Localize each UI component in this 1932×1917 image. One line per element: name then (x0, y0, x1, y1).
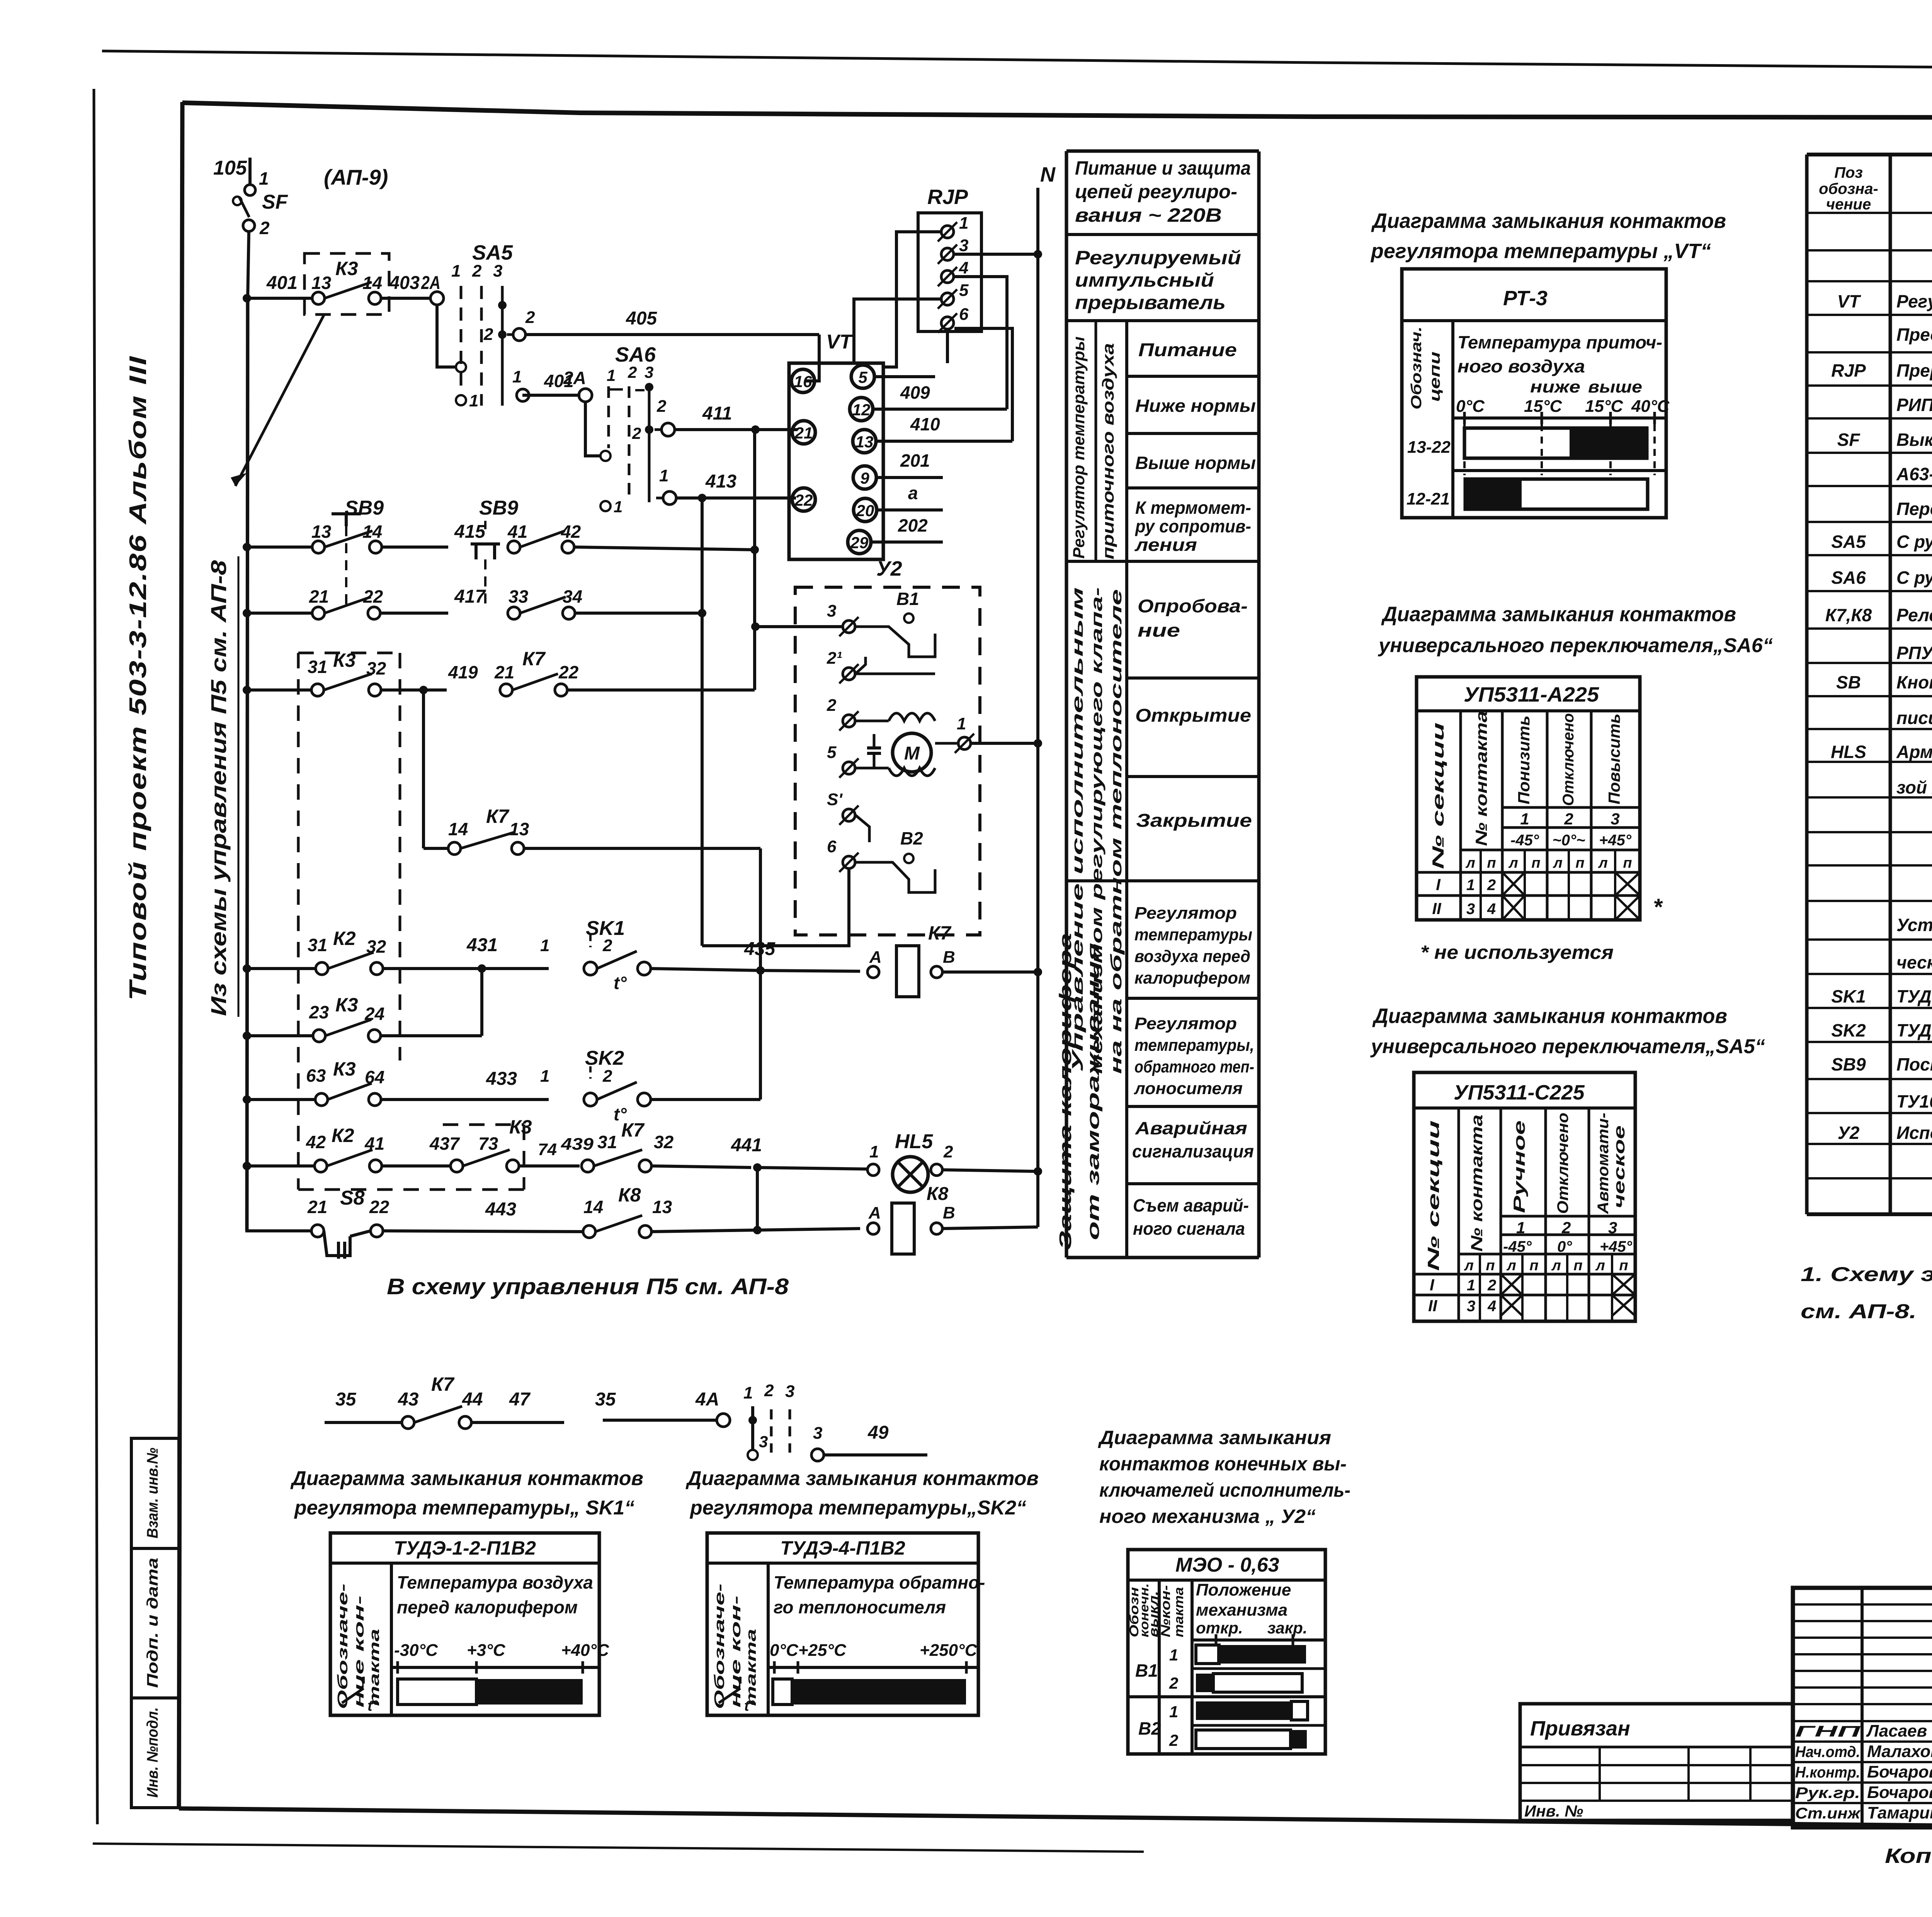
svg-text:2: 2 (628, 363, 637, 381)
svg-text:л: л (1506, 1258, 1516, 1274)
svg-text:VT: VT (1837, 291, 1862, 311)
svg-text:2: 2 (1169, 1674, 1178, 1692)
svg-text:В2: В2 (900, 828, 923, 848)
svg-text:К7,К8: К7,К8 (1825, 605, 1872, 625)
svg-text:РПУ-2-06220УЗА, 2з+2р ~220В, 5: РПУ-2-06220УЗА, 2з+2р ~220В, 50Гц, ТУ16-… (1896, 643, 1932, 663)
svg-text:4: 4 (959, 258, 968, 277)
svg-text:В схему управления П5 см.: В схему управления П5 см. АП-8 (387, 1274, 789, 1299)
svg-text:Диаграмма замыкания контактов: Диаграмма замыкания контактов (1371, 209, 1726, 233)
svg-text:31: 31 (597, 1132, 617, 1152)
svg-text:42: 42 (306, 1132, 326, 1152)
svg-text:Повысить: Повысить (1605, 714, 1623, 804)
svg-text:А63-МУ3~220В, Iн=1,0А. Iотс=1,: А63-МУ3~220В, Iн=1,0А. Iотс=1,3Iн,ТУ16-5… (1896, 464, 1932, 484)
svg-text:такта: такта (1172, 1587, 1186, 1637)
svg-text:+250°С: +250°С (920, 1641, 978, 1660)
svg-text:20: 20 (856, 501, 874, 520)
svg-text:Регулируемый: Регулируемый (1075, 247, 1241, 269)
svg-text:73: 73 (478, 1134, 498, 1154)
svg-text:Поз: Поз (1834, 164, 1863, 181)
svg-text:Закрытие: Закрытие (1136, 811, 1252, 831)
svg-text:35: 35 (335, 1389, 357, 1410)
svg-text:-45°: -45° (1503, 1238, 1532, 1255)
svg-text:К3: К3 (335, 258, 358, 279)
svg-text:п: п (1529, 1258, 1538, 1274)
svg-text:Пост управления кнопочный ПК: Пост управления кнопочный ПКЕ 212-2УЗ (1896, 1054, 1932, 1074)
svg-text:зой АС120 11У2, ~ 220В, ТУ16-5: зой АС120 11У2, ~ 220В, ТУ16-535. 930 -7… (1896, 777, 1932, 797)
svg-text:Из схемы управления П5 см.: Из схемы управления П5 см. АП-8 (206, 560, 231, 1016)
svg-text:33: 33 (509, 586, 529, 607)
svg-text:0°С+25°С: 0°С+25°С (770, 1641, 847, 1660)
svg-text:У2: У2 (876, 557, 902, 580)
svg-text:ческое, ТУ25-02.281. 074-78: ческое, ТУ25-02.281. 074-78 (1896, 952, 1932, 972)
svg-text:II: II (1428, 1297, 1438, 1315)
svg-text:выше: выше (1588, 377, 1642, 396)
svg-text:Привязан: Привязан (1530, 1717, 1630, 1740)
svg-text:3: 3 (813, 1424, 822, 1443)
svg-text:2¹: 2¹ (827, 649, 842, 668)
svg-text:2: 2 (472, 262, 482, 280)
svg-text:-30°С: -30°С (394, 1641, 438, 1660)
svg-text:ления: ления (1134, 535, 1197, 555)
svg-text:л: л (1464, 1258, 1474, 1274)
svg-text:417: 417 (454, 586, 486, 607)
svg-text:приточного воздуха: приточного воздуха (1099, 343, 1117, 559)
svg-text:S': S' (827, 790, 843, 809)
svg-text:41: 41 (507, 522, 527, 542)
svg-text:ного воздуха: ного воздуха (1458, 356, 1585, 376)
svg-text:I: I (1436, 875, 1441, 894)
svg-text:Инв. №: Инв. № (1524, 1802, 1583, 1820)
svg-text:5: 5 (827, 743, 837, 762)
svg-text:РТ-3: РТ-3 (1503, 287, 1548, 310)
svg-text:SK1: SK1 (1831, 986, 1866, 1006)
svg-text:Диаграмма замыкания: Диаграмма замыкания (1098, 1427, 1331, 1448)
svg-text:RJP: RJP (927, 185, 968, 209)
svg-text:Н.контр.: Н.контр. (1795, 1764, 1860, 1781)
svg-text:1: 1 (1520, 810, 1529, 828)
svg-text:В: В (943, 1203, 955, 1222)
svg-text:SF: SF (1837, 430, 1861, 450)
svg-text:К7: К7 (522, 648, 546, 670)
svg-text:Рук.гр.: Рук.гр. (1795, 1784, 1860, 1801)
svg-text:А: А (868, 1203, 881, 1222)
svg-text:13: 13 (311, 522, 332, 542)
svg-text:VT: VT (826, 331, 854, 353)
svg-text:К2: К2 (333, 928, 356, 949)
svg-text:Малахов: Малахов (1867, 1742, 1932, 1761)
svg-text:Инв. №подл.: Инв. №подл. (144, 1707, 161, 1798)
svg-text:21: 21 (309, 586, 329, 607)
svg-text:405: 405 (626, 308, 657, 329)
svg-text:441: 441 (731, 1135, 762, 1156)
svg-text:цепей регулиро-: цепей регулиро- (1075, 181, 1237, 202)
svg-text:цепи: цепи (1427, 352, 1443, 402)
svg-text:РИП-2УХЛ4-220В, 50Гц. ТУ36-174: РИП-2УХЛ4-220В, 50Гц. ТУ36-1748-74 (1896, 395, 1932, 415)
svg-text:Типовой проект 503-3-12.86: Типовой проект 503-3-12.86 Альбом III (125, 355, 151, 1001)
svg-text:437: 437 (429, 1134, 460, 1154)
svg-text:Выключатель автоматический одн: Выключатель автоматический однополюсный (1896, 430, 1932, 450)
svg-text:21: 21 (794, 424, 813, 442)
svg-text:419: 419 (448, 662, 478, 682)
svg-text:№ контакта: № контакта (1468, 1115, 1486, 1252)
svg-text:HL5: HL5 (895, 1130, 933, 1153)
svg-text:ТУ16 - 526 . 216 -78: ТУ16 - 526 . 216 -78 (1896, 1091, 1932, 1111)
svg-text:15°С: 15°С (1524, 397, 1563, 416)
svg-text:31: 31 (308, 657, 327, 677)
svg-text:№кон-: №кон- (1158, 1585, 1173, 1637)
svg-text:409: 409 (900, 382, 930, 403)
svg-text:Температура обратно-: Температура обратно- (774, 1572, 985, 1592)
svg-text:п: п (1575, 855, 1584, 871)
svg-text:л: л (1553, 855, 1563, 871)
svg-text:см. АП-8.: см. АП-8. (1801, 1300, 1917, 1323)
svg-text:ниже: ниже (1530, 377, 1580, 396)
svg-text:SB9: SB9 (479, 497, 518, 519)
svg-text:32: 32 (654, 1132, 674, 1152)
svg-text:+3°С: +3°С (467, 1641, 506, 1660)
svg-text:0°С: 0°С (1456, 397, 1485, 416)
svg-text:К7: К7 (486, 806, 510, 827)
svg-text:ние: ние (1138, 620, 1180, 641)
svg-text:п: п (1486, 1258, 1495, 1274)
svg-text:2: 2 (525, 308, 535, 327)
svg-text:ТУДЭ -1- 2 - П1В2: ТУДЭ -1- 2 - П1В2 (1896, 986, 1932, 1006)
svg-text:13: 13 (652, 1197, 672, 1217)
svg-text:6: 6 (827, 837, 837, 856)
svg-text:2: 2 (764, 1381, 774, 1400)
svg-text:435: 435 (744, 939, 776, 959)
svg-text:2: 2 (656, 397, 667, 416)
svg-text:I: I (1430, 1276, 1435, 1294)
svg-text:1. Схему электрическую принц: 1. Схему электрическую принципиальную уп… (1801, 1263, 1932, 1286)
svg-text:К2: К2 (332, 1125, 354, 1146)
svg-text:Регулятор температуры: Регулятор температуры (1070, 336, 1088, 559)
svg-text:21: 21 (494, 662, 514, 682)
svg-text:Питание: Питание (1138, 340, 1237, 360)
svg-text:Открытие: Открытие (1135, 705, 1251, 726)
svg-text:Регулятор: Регулятор (1134, 904, 1237, 923)
svg-text:29: 29 (850, 534, 869, 552)
svg-text:К термомет-: К термомет- (1135, 498, 1251, 518)
svg-text:4А: 4А (695, 1389, 719, 1410)
svg-text:2: 2 (632, 424, 641, 442)
svg-text:импульсный: импульсный (1075, 269, 1214, 291)
svg-text:4: 4 (1487, 901, 1496, 918)
svg-text:Бочарова: Бочарова (1867, 1762, 1932, 1781)
svg-text:Бочарова: Бочарова (1867, 1783, 1932, 1802)
svg-text:Автомати-: Автомати- (1595, 1113, 1612, 1214)
svg-text:Опробова-: Опробова- (1138, 596, 1248, 617)
svg-text:К7: К7 (928, 922, 952, 944)
svg-text:47: 47 (509, 1389, 531, 1410)
svg-text:1: 1 (469, 391, 478, 410)
svg-text:S8: S8 (340, 1187, 365, 1209)
svg-text:регулятора температуры„ SK1“: регулятора температуры„ SK1“ (294, 1497, 634, 1519)
svg-text:калорифером: калорифером (1134, 969, 1250, 987)
svg-text:12-21: 12-21 (1406, 489, 1450, 508)
svg-text:Предел регулирования 0-40°С,ТУ: Предел регулирования 0-40°С,ТУ25-02.202.… (1896, 325, 1932, 345)
svg-text:SB: SB (1836, 672, 1861, 692)
svg-text:3: 3 (759, 1433, 768, 1451)
svg-text:t°: t° (367, 1698, 379, 1714)
svg-text:1: 1 (512, 367, 522, 386)
svg-text:Реле электромагнитное универс: Реле электромагнитное универсальное (1896, 605, 1932, 625)
svg-text:регулятора температуры„SK2“: регулятора температуры„SK2“ (689, 1497, 1026, 1519)
svg-text:14: 14 (583, 1197, 603, 1217)
svg-text:Диаграмма замыкания контактов: Диаграмма замыкания контактов (1372, 1004, 1727, 1028)
svg-text:14: 14 (448, 819, 468, 839)
svg-text:3: 3 (1611, 810, 1619, 828)
svg-text:22: 22 (558, 662, 579, 682)
svg-text:У2: У2 (1838, 1123, 1860, 1143)
svg-text:401: 401 (266, 273, 298, 293)
svg-text:3: 3 (493, 262, 502, 280)
svg-text:п: п (1531, 855, 1540, 871)
svg-text:2: 2 (943, 1142, 953, 1161)
svg-text:чение: чение (1826, 196, 1871, 213)
svg-text:1: 1 (451, 262, 461, 280)
svg-text:1: 1 (1467, 1277, 1475, 1294)
svg-text:Копировал Шос. -: Копировал Шос. - (1885, 1844, 1932, 1868)
svg-text:универсального переключателя„S: универсального переключателя„SA6“ (1378, 634, 1773, 657)
svg-text:12: 12 (852, 401, 871, 419)
svg-text:2: 2 (602, 936, 612, 955)
svg-text:1: 1 (743, 1383, 753, 1402)
svg-text:такта: такта (366, 1629, 382, 1706)
svg-text:21: 21 (307, 1197, 327, 1217)
svg-text:Диаграмма замыкания контактов: Диаграмма замыкания контактов (290, 1467, 643, 1490)
svg-text:В: В (943, 948, 955, 967)
svg-text:*: * (1653, 894, 1663, 920)
svg-text:температуры,: температуры, (1134, 1036, 1254, 1055)
svg-text:403: 403 (389, 273, 420, 293)
svg-text:Арматура светосигнальная с кр: Арматура светосигнальная с красной лин- (1896, 742, 1932, 762)
svg-text:Ст.инж: Ст.инж (1795, 1805, 1861, 1822)
svg-text:63: 63 (306, 1066, 326, 1086)
svg-text:закр.: закр. (1267, 1619, 1307, 1637)
svg-text:л: л (1551, 1258, 1561, 1274)
svg-text:2А: 2А (421, 273, 440, 293)
svg-text:такта: такта (743, 1629, 759, 1706)
svg-text:13-22: 13-22 (1407, 438, 1451, 457)
svg-text:1: 1 (1169, 1646, 1178, 1664)
svg-text:Обознач.: Обознач. (1408, 326, 1425, 410)
svg-text:2: 2 (483, 325, 493, 344)
svg-text:2: 2 (602, 1067, 612, 1086)
svg-text:п: п (1487, 855, 1496, 871)
svg-text:1: 1 (259, 168, 269, 189)
svg-text:t°: t° (614, 973, 627, 993)
svg-text:Ниже нормы: Ниже нормы (1135, 396, 1256, 416)
svg-text:писи, ТУ 16-526. 407- 79: писи, ТУ 16-526. 407- 79 (1896, 708, 1932, 728)
svg-text:ного сигнала: ного сигнала (1133, 1219, 1245, 1239)
svg-text:л: л (1595, 1258, 1605, 1274)
svg-text:ключателей исполнитель-: ключателей исполнитель- (1099, 1479, 1350, 1501)
svg-text:II: II (1432, 899, 1442, 918)
svg-text:Понизить: Понизить (1515, 715, 1533, 804)
svg-text:Питание и защита: Питание и защита (1075, 157, 1251, 179)
svg-text:13: 13 (855, 433, 874, 451)
svg-text:лоносителя: лоносителя (1134, 1079, 1243, 1098)
svg-text:п: п (1623, 855, 1632, 871)
svg-text:В1: В1 (1135, 1660, 1158, 1681)
svg-text:SK2: SK2 (585, 1047, 624, 1069)
svg-text:* не используется: * не используется (1420, 942, 1614, 963)
svg-text:Диаграмма замыкания контактов: Диаграмма замыкания контактов (1381, 603, 1736, 626)
svg-text:2: 2 (259, 218, 270, 238)
svg-text:23: 23 (309, 1002, 329, 1022)
svg-text:механизма: механизма (1196, 1601, 1287, 1620)
svg-text:SA6: SA6 (1831, 568, 1866, 588)
svg-text:воздуха перед: воздуха перед (1134, 947, 1250, 966)
svg-text:Тамарина: Тамарина (1867, 1803, 1932, 1822)
svg-text:обратного теп-: обратного теп- (1134, 1057, 1254, 1076)
svg-text:22: 22 (369, 1197, 389, 1217)
svg-text:1: 1 (540, 1067, 549, 1086)
svg-text:М: М (904, 743, 920, 764)
svg-text:415: 415 (454, 522, 486, 542)
svg-text:1: 1 (957, 714, 966, 733)
svg-text:п: п (1619, 1258, 1628, 1274)
svg-text:К8: К8 (927, 1184, 949, 1204)
svg-text:3: 3 (1467, 1298, 1475, 1315)
svg-text:Обозначе-: Обозначе- (335, 1584, 350, 1709)
svg-text:вания ~ 220В: вания ~ 220В (1075, 204, 1222, 226)
svg-text:410: 410 (910, 414, 940, 434)
svg-text:2: 2 (1487, 1277, 1496, 1294)
svg-text:Положение: Положение (1196, 1581, 1291, 1599)
svg-text:УП5311-А225: УП5311-А225 (1464, 683, 1599, 706)
svg-text:SA5: SA5 (472, 241, 513, 264)
svg-text:1: 1 (614, 498, 622, 516)
svg-text:Регулятор температуры РТ-3, Гр: Регулятор температуры РТ-3, Градуировка … (1896, 291, 1932, 311)
svg-text:ческое: ческое (1611, 1125, 1628, 1208)
svg-text:1: 1 (959, 214, 968, 233)
svg-text:40°С: 40°С (1631, 397, 1670, 416)
svg-text:Отключено: Отключено (1554, 1113, 1571, 1214)
svg-text:-45°: -45° (1510, 832, 1539, 849)
svg-text:13: 13 (311, 273, 332, 293)
svg-text:31: 31 (308, 935, 327, 955)
svg-text:температуры: температуры (1134, 925, 1252, 944)
svg-text:Обозначе-: Обозначе- (711, 1584, 727, 1709)
svg-text:431: 431 (466, 935, 498, 955)
svg-text:Устройство терморегулирующее: Устройство терморегулирующее дилатометри… (1896, 915, 1932, 935)
svg-text:сигнализация: сигнализация (1132, 1141, 1254, 1161)
svg-text:N: N (1040, 163, 1056, 186)
svg-text:34: 34 (563, 586, 582, 607)
svg-text:ТУДЭ - 4 -П1В2: ТУДЭ - 4 -П1В2 (1896, 1020, 1932, 1040)
svg-text:Аварийная: Аварийная (1135, 1118, 1247, 1138)
svg-text:К8: К8 (618, 1184, 641, 1206)
svg-text:202: 202 (898, 515, 928, 535)
svg-text:регулятора температуры „VT“: регулятора температуры „VT“ (1370, 240, 1711, 263)
svg-text:2: 2 (1564, 810, 1573, 828)
svg-text:А: А (869, 948, 882, 967)
svg-text:МЭО - 0,63: МЭО - 0,63 (1175, 1554, 1279, 1576)
svg-text:Прерыватель регулируемый импу: Прерыватель регулируемый импульсный (1896, 360, 1932, 381)
svg-text:+45°: +45° (1600, 1238, 1633, 1255)
svg-text:2: 2 (827, 696, 837, 715)
svg-text:ТУДЭ-1-2-П1В2: ТУДЭ-1-2-П1В2 (394, 1537, 536, 1559)
svg-text:+40°С: +40°С (561, 1641, 609, 1660)
svg-text:SB9: SB9 (345, 497, 384, 519)
svg-text:(АП-9): (АП-9) (324, 165, 388, 189)
svg-text:+45°: +45° (1599, 832, 1632, 849)
svg-text:22: 22 (363, 586, 383, 607)
svg-text:на на обратном теплоносителе: на на обратном теплоносителе (1108, 589, 1125, 1074)
svg-text:44: 44 (462, 1389, 483, 1410)
svg-text:Переключатель универсальный,ТУ: Переключатель универсальный,ТУ16-524.074… (1896, 499, 1932, 519)
svg-text:го теплоносителя: го теплоносителя (774, 1597, 946, 1617)
svg-text:Отключено: Отключено (1560, 713, 1577, 806)
svg-text:SВ9: SВ9 (1831, 1054, 1866, 1074)
svg-text:t°: t° (744, 1698, 755, 1714)
svg-text:43: 43 (398, 1389, 419, 1410)
svg-text:SF: SF (262, 191, 288, 213)
svg-text:13: 13 (509, 819, 529, 839)
svg-text:С рукояткой овальной формы УП: С рукояткой овальной формы УП5311- С225 (1896, 532, 1932, 552)
svg-text:49: 49 (867, 1422, 889, 1443)
svg-text:443: 443 (485, 1199, 516, 1220)
svg-text:№ контакта: № контакта (1472, 711, 1490, 846)
svg-text:Регулятор: Регулятор (1134, 1014, 1237, 1033)
svg-text:Защита калорифера: Защита калорифера (1056, 933, 1075, 1250)
svg-text:HLS: HLS (1831, 742, 1866, 762)
svg-text:Диаграмма замыкания контактов: Диаграмма замыкания контактов (685, 1467, 1039, 1490)
svg-text:Выше нормы: Выше нормы (1135, 453, 1256, 473)
svg-text:SA5: SA5 (1831, 532, 1866, 552)
svg-text:201: 201 (900, 450, 930, 471)
svg-text:SA6: SA6 (615, 343, 656, 366)
svg-text:1: 1 (607, 366, 616, 384)
svg-text:3: 3 (1466, 901, 1475, 918)
svg-text:Подп. и дата: Подп. и дата (144, 1558, 161, 1688)
svg-text:Исполнительный механизм МЭО-: Исполнительный механизм МЭО-0.63 (1896, 1123, 1932, 1143)
svg-text:~0°~: ~0°~ (1553, 832, 1585, 849)
svg-text:2: 2 (1487, 877, 1496, 894)
svg-text:1: 1 (1466, 877, 1475, 894)
svg-text:ГНП: ГНП (1795, 1723, 1861, 1740)
svg-text:ТУДЭ-4-П1В2: ТУДЭ-4-П1В2 (780, 1537, 905, 1559)
svg-text:К3: К3 (333, 1058, 356, 1080)
svg-text:л: л (1598, 855, 1608, 871)
svg-text:3: 3 (785, 1382, 794, 1401)
svg-text:15°С: 15°С (1585, 397, 1624, 416)
svg-text:ного механизма „ У2“: ного механизма „ У2“ (1099, 1506, 1316, 1527)
svg-text:5: 5 (959, 281, 969, 300)
svg-text:3: 3 (827, 602, 836, 620)
svg-text:К3: К3 (509, 1116, 532, 1138)
svg-text:ру сопротив-: ру сопротив- (1134, 516, 1251, 536)
svg-text:С рукояткой револьверной формы: С рукояткой револьверной формы УП5311-А2… (1896, 568, 1932, 588)
svg-text:обозна-: обозна- (1819, 180, 1878, 197)
svg-text:л: л (1465, 855, 1475, 871)
svg-text:2: 2 (1169, 1731, 1178, 1749)
svg-text:Нач.отд.: Нач.отд. (1795, 1744, 1860, 1761)
svg-text:105: 105 (213, 157, 247, 179)
svg-text:Съем аварий-: Съем аварий- (1133, 1195, 1249, 1215)
svg-text:RJP: RJP (1831, 360, 1866, 381)
svg-text:4: 4 (1487, 1298, 1496, 1315)
svg-text:л: л (1508, 855, 1518, 871)
svg-text:от замораживания: от замораживания (1084, 943, 1103, 1240)
svg-text:универсального переключателя„S: универсального переключателя„SA5“ (1370, 1035, 1765, 1058)
svg-text:9: 9 (860, 469, 869, 487)
svg-text:413: 413 (705, 471, 736, 492)
svg-text:1: 1 (659, 466, 668, 485)
svg-text:УП5311-С225: УП5311-С225 (1454, 1081, 1585, 1104)
